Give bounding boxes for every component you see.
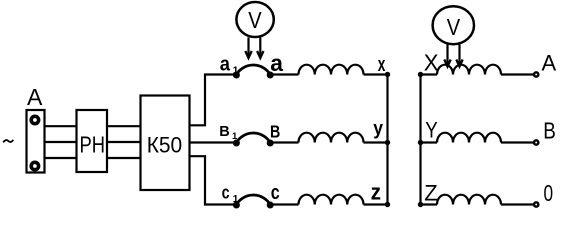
svg-text:В: В	[219, 124, 229, 140]
svg-text:В: В	[270, 121, 280, 141]
svg-text:x: x	[378, 54, 386, 76]
svg-text:1: 1	[233, 64, 239, 76]
svg-text:0: 0	[544, 180, 554, 206]
svg-text:1: 1	[233, 193, 239, 205]
svg-text:V: V	[248, 7, 262, 33]
svg-text:c: c	[271, 181, 280, 204]
svg-text:Y: Y	[425, 118, 438, 143]
svg-text:Z: Z	[424, 181, 437, 206]
svg-text:К50: К50	[147, 133, 183, 158]
svg-text:РН: РН	[80, 132, 106, 158]
svg-text:V: V	[447, 14, 461, 40]
svg-text:1: 1	[232, 131, 238, 142]
svg-text:a: a	[220, 53, 231, 75]
svg-text:c: c	[222, 182, 230, 203]
svg-text:y: y	[373, 119, 383, 140]
svg-text:A: A	[542, 51, 557, 76]
svg-text:A: A	[27, 84, 43, 110]
svg-text:X: X	[424, 50, 439, 76]
svg-text:z: z	[371, 180, 381, 205]
svg-text:В: В	[543, 117, 556, 143]
svg-text:a: a	[270, 50, 283, 76]
